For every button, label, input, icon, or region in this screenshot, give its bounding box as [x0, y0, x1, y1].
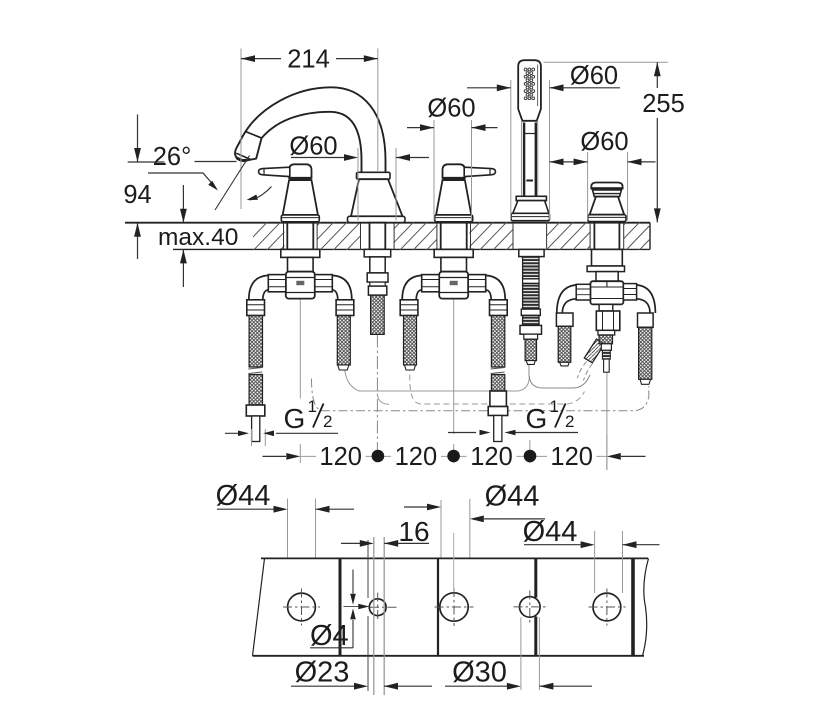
- svg-text:214: 214: [287, 46, 330, 74]
- svg-text:G: G: [526, 403, 548, 434]
- neck band: [443, 177, 465, 180]
- diverter right port nut: [623, 284, 636, 300]
- deck bottom line: [173, 248, 650, 250]
- routing stub from spout centerline: [377, 394, 389, 404]
- divider joint 3: [534, 558, 537, 655]
- svg-text:120: 120: [319, 443, 362, 471]
- diverter knob K3 top cap: [591, 183, 622, 189]
- dim O60 handle2: [434, 120, 472, 221]
- right hose fitting: [336, 300, 354, 316]
- dim row 120: [263, 455, 287, 457]
- hose routing line r4 (dash-dot to diverter right hose): [312, 379, 649, 411]
- right elbow: [486, 275, 506, 299]
- diverter left braided hose: [558, 326, 571, 362]
- dim O60 spout base: [358, 148, 396, 221]
- diverter right hose fitting: [638, 313, 654, 327]
- left hose fitting: [400, 300, 418, 316]
- left braided hose (long, to G1/2): [249, 316, 262, 368]
- svg-text:Ø44: Ø44: [523, 516, 578, 548]
- dim O44 hole B3: [595, 531, 623, 593]
- left hose end nut: [246, 405, 264, 416]
- centerline handle2: [453, 299, 455, 464]
- centerline spout (dash-dot): [376, 335, 378, 464]
- left port nut: [422, 275, 440, 292]
- spacing dots: [372, 450, 385, 463]
- divider joint 1: [339, 558, 342, 655]
- diverter left hose fitting: [556, 313, 573, 326]
- right port nut: [315, 275, 333, 292]
- threaded shank through deck: [287, 223, 313, 250]
- diverter center stack: [599, 304, 613, 311]
- svg-text:Ø23: Ø23: [295, 657, 350, 689]
- right hose fitting: [490, 300, 508, 316]
- handle H1 (left hot valve): [259, 164, 320, 221]
- dim 214 extension lines: [241, 49, 378, 210]
- diverter right elbow: [637, 285, 656, 313]
- dim O30: [445, 685, 592, 687]
- centerline diverter: [606, 373, 608, 471]
- deck hole edges: [284, 223, 624, 250]
- svg-text:Ø60: Ø60: [289, 133, 337, 161]
- left elbow: [402, 275, 422, 299]
- dim 94: [128, 115, 165, 260]
- right end thick edge: [631, 558, 635, 655]
- diverter cross body: [590, 281, 623, 304]
- svg-text:1: 1: [308, 397, 317, 416]
- shank lower: [288, 257, 314, 271]
- dim 255 top extension: [544, 61, 669, 63]
- dim 214: [241, 58, 378, 60]
- ext lines 16/O23: [367, 540, 369, 691]
- svg-text:94: 94: [123, 181, 151, 209]
- left break edge: [253, 558, 265, 655]
- hole B1 (O44): [288, 593, 316, 621]
- right braided hose (long, to G1/2): [491, 316, 504, 368]
- shower escutcheon: [516, 196, 546, 200]
- diverter left elbow: [557, 285, 576, 313]
- hose routing line r1 (handle1 right hose to shower): [345, 367, 530, 391]
- left elbow: [249, 275, 268, 299]
- shower head spray dots: [524, 68, 534, 100]
- svg-text:2: 2: [323, 412, 332, 431]
- neck band: [289, 177, 311, 180]
- diverter knob flare: [590, 197, 625, 215]
- spout threaded rod: [371, 295, 385, 334]
- aerator joint line: [246, 132, 262, 138]
- aerator mouth: [237, 158, 247, 161]
- diverter right braided hose: [639, 327, 652, 379]
- G1/2 tube end: [252, 416, 260, 442]
- threaded shank through deck: [441, 223, 467, 250]
- locknut under deck: [281, 249, 320, 257]
- spout cone base: [351, 179, 403, 216]
- svg-text:max.40: max.40: [158, 224, 238, 251]
- label G1/2 right: [448, 432, 578, 434]
- shower shank below deck: [519, 249, 544, 256]
- G1/2 tube end: [494, 416, 502, 442]
- head cap: [443, 164, 465, 178]
- svg-text:Ø44: Ø44: [485, 481, 540, 513]
- centerline handle1: [299, 299, 301, 464]
- svg-text:120: 120: [395, 443, 438, 471]
- locknut under deck: [434, 249, 473, 257]
- hole B3 (O44): [593, 593, 621, 621]
- valve body: [439, 272, 468, 299]
- spout curved tube: [235, 87, 385, 172]
- base ring: [281, 215, 319, 222]
- right hose end nut: [490, 391, 507, 407]
- base ring: [435, 215, 473, 222]
- hose routing line r2 (shower hose to diverter nipple): [529, 365, 590, 389]
- 26deg leader arrow: [148, 173, 213, 185]
- deck right edge: [649, 223, 651, 250]
- svg-text:Ø60: Ø60: [580, 128, 628, 156]
- right braided hose (short): [337, 316, 350, 366]
- dim O23: [291, 685, 432, 687]
- angled shower-hose stub (hatched): [584, 339, 604, 363]
- svg-text:G: G: [284, 403, 306, 434]
- dim 255: [656, 62, 658, 222]
- shower wand handle: [522, 121, 538, 197]
- handle H2 (middle cold valve): [435, 164, 496, 221]
- hose routing line r3 (handle2 left hose, dashed): [410, 365, 585, 404]
- deck hatching: [240, 222, 680, 251]
- valve assembly V2 (under handle H2): [400, 223, 508, 442]
- shank lower: [441, 257, 467, 271]
- dim O60 shower head: [511, 80, 550, 220]
- pilot hole O4 marker: [344, 606, 363, 608]
- svg-text:Ø4: Ø4: [310, 620, 349, 652]
- valve body: [286, 272, 315, 299]
- left braided hose (short): [404, 316, 417, 366]
- svg-text:Ø60: Ø60: [570, 62, 618, 90]
- aerator end band: [236, 153, 250, 159]
- label G1/2 left: [252, 429, 266, 446]
- svg-text:Ø44: Ø44: [216, 480, 271, 512]
- hand shower head: [518, 60, 541, 121]
- svg-text:Ø30: Ø30: [452, 657, 507, 689]
- lever arm: [259, 167, 290, 176]
- dim O44 hole B1: [288, 499, 316, 558]
- svg-text:Ø60: Ø60: [427, 95, 475, 123]
- deck top surface line: [125, 222, 650, 224]
- hole S2 (O30): [520, 597, 541, 618]
- dim O44 hole B2: [441, 499, 470, 558]
- hole S (O23 small): [369, 599, 386, 616]
- valve assembly V1 (under handle H1): [246, 223, 354, 442]
- dim max.40: [182, 185, 184, 287]
- centerline hand shower ext: [529, 440, 531, 463]
- lever arm: [464, 167, 495, 176]
- drilling strip outline: [261, 557, 648, 559]
- right elbow: [332, 275, 352, 299]
- svg-text:1: 1: [550, 397, 559, 416]
- cone body: [436, 180, 471, 215]
- svg-text:2: 2: [565, 412, 574, 431]
- svg-text:16: 16: [398, 516, 429, 547]
- divider joint 2: [437, 558, 439, 655]
- hole B2 (O44): [440, 593, 468, 621]
- head cap: [289, 164, 311, 178]
- diverter knob base ring: [588, 215, 626, 222]
- dim O60 diverter: [588, 152, 628, 221]
- svg-text:255: 255: [642, 90, 685, 118]
- spout flange: [357, 172, 391, 179]
- dim 16: [341, 542, 429, 544]
- svg-text:26°: 26°: [153, 143, 192, 171]
- diverter knob waist: [593, 190, 622, 197]
- cone body: [283, 180, 318, 215]
- diverter shank below deck: [594, 223, 619, 250]
- ext lines O30: [521, 618, 540, 691]
- svg-text:120: 120: [550, 443, 593, 471]
- left hose fitting: [247, 300, 265, 316]
- left port nut: [268, 275, 286, 292]
- right port nut: [468, 275, 486, 292]
- spout shank S1 below deck: [370, 223, 386, 250]
- diverter left port nut: [576, 284, 590, 300]
- ext line hole B2 center: [453, 533, 455, 592]
- right break edge: [643, 558, 649, 655]
- angle arc: [249, 187, 272, 200]
- svg-text:120: 120: [470, 443, 513, 471]
- spray direction line: [215, 156, 250, 211]
